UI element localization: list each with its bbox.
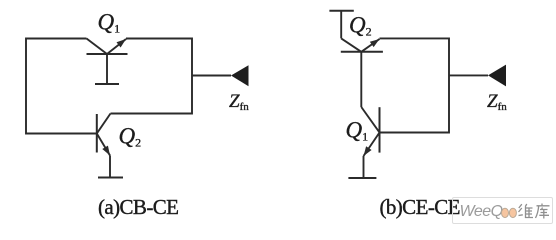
svg-text:Q2: Q2	[349, 13, 372, 39]
Q1 emitter lead down	[363, 156, 365, 178]
ground bar above Q2, circuit (b)	[329, 10, 353, 12]
wire: output stub to Zfn port, circuit (b)	[449, 74, 488, 76]
Q1 base bar	[87, 53, 128, 55]
Q2 collector lead (diagonal)	[97, 114, 111, 134]
Q1 emitter lead (diagonal with arrow)	[107, 39, 126, 54]
caption (a)CB-CE	[98, 195, 178, 220]
Q2 base lead down	[360, 52, 362, 107]
svg-text:Q1: Q1	[98, 10, 121, 36]
ground at Q1 base, circuit (a)	[95, 83, 119, 85]
Q2 base bar	[96, 114, 98, 153]
transistor Q2 (rotated), circuit (b)	[341, 38, 383, 107]
Q1 collector lead (diagonal from Q2 base)	[361, 107, 379, 133]
Q1 base lead down	[106, 54, 108, 84]
wire: output stub to Zfn port, circuit (a)	[192, 75, 231, 77]
transistor Q1 (common-base, rotated), circuit (a)	[87, 39, 128, 85]
watermark chinese characters	[517, 203, 553, 221]
transistor Q2 (common-emitter), circuit (a)	[97, 114, 111, 178]
wire: feedback loop from Q1 collector to Q2 base (left rail), circuit (a)	[26, 39, 97, 134]
svg-text:Q2: Q2	[119, 124, 142, 150]
Q2 emitter lead (diagonal with arrow)	[97, 134, 110, 156]
Q2 emitter lead (diagonal with arrow)	[361, 39, 379, 52]
port symbol Zfn (filled triangle), circuit (a)	[231, 65, 249, 86]
wire: Q2 emitter to right rail down to Q1 base, circuit (b)	[380, 38, 450, 132]
svg-text:Zfn: Zfn	[487, 91, 507, 113]
transistor Q1 (common-emitter, mirrored), circuit (b)	[361, 107, 379, 178]
Q2 collector lead (diagonal)	[341, 38, 361, 51]
caption (b)CE-CE	[380, 195, 460, 220]
Q2 emitter lead down	[109, 156, 111, 178]
Q1 emitter lead (diagonal with arrow)	[364, 133, 380, 157]
watermark WeeQoo box	[452, 197, 553, 224]
wire: Q1 emitter to right rail down to Q2 collector, circuit (a)	[111, 39, 193, 114]
watermark oo dots	[500, 206, 520, 221]
watermark WeeQoo text	[460, 203, 503, 221]
wire: Q2 collector up to ground, circuit (b)	[340, 11, 342, 39]
svg-text:Zfn: Zfn	[229, 91, 249, 113]
ground at Q1 emitter, circuit (b)	[348, 177, 376, 179]
ground at Q2 emitter, circuit (a)	[98, 177, 123, 179]
Q1 base bar	[379, 107, 381, 152]
port symbol Zfn (filled triangle), circuit (b)	[488, 65, 506, 87]
Q2 base bar	[341, 51, 383, 53]
svg-text:Q1: Q1	[346, 117, 369, 143]
Q1 collector lead (diagonal)	[87, 39, 108, 55]
